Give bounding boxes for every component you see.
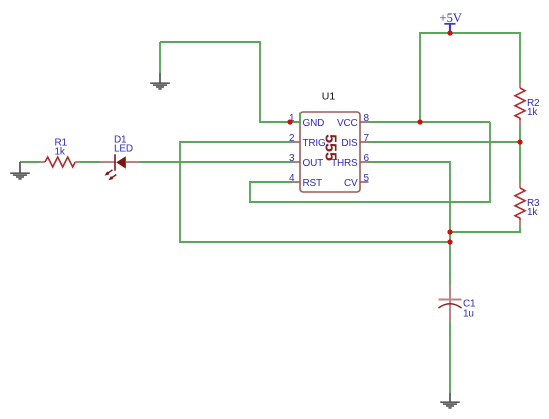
junction node DIS / R2-R3 xyxy=(517,139,522,144)
svg-text:U1: U1 xyxy=(322,91,336,103)
pin number 5 xyxy=(364,173,370,184)
pin label GND xyxy=(303,118,325,129)
pin label DIS xyxy=(341,138,358,149)
svg-text:1k: 1k xyxy=(527,107,538,118)
wire: LED to OUT pin 3 xyxy=(139,161,293,163)
pin stub 8 VCC xyxy=(360,121,369,123)
svg-text:1k: 1k xyxy=(55,147,66,158)
wire: RST loop pin4 to VCC rail xyxy=(250,122,490,202)
ground (bottom) xyxy=(440,393,460,408)
pin label CV xyxy=(344,178,358,189)
svg-text:1u: 1u xyxy=(463,309,474,320)
pin number 2 xyxy=(289,133,295,144)
wire: R2 bottom to DIS node xyxy=(519,125,521,142)
pin stub 5 CV xyxy=(360,181,369,183)
pin stub 4 RST xyxy=(293,181,301,183)
wire: DIS pin7 to R2/R3 node xyxy=(369,141,521,143)
junction node at GND pin 1 xyxy=(287,119,292,124)
label 555 xyxy=(322,134,339,161)
pin number 8 xyxy=(364,113,370,124)
wire: R1 to LED xyxy=(80,161,100,163)
capacitor C1 xyxy=(439,285,462,322)
wire: top-left ground rail to GND pin1 xyxy=(160,42,300,122)
wire: DIS node to R3 top xyxy=(519,142,521,183)
svg-text:VCC: VCC xyxy=(337,118,358,129)
wire: R3 bottom to THRS node xyxy=(450,225,520,232)
ground (left) xyxy=(10,162,30,179)
wire: VCC pin8 rail xyxy=(369,121,491,123)
label R3 1k xyxy=(527,198,540,218)
resistor R3 xyxy=(515,183,525,225)
pin number 7 xyxy=(364,133,370,144)
resistor R2 xyxy=(515,83,525,125)
pin number 6 xyxy=(364,153,370,164)
junction node +5V stub / top rail xyxy=(447,30,452,35)
svg-text:GND: GND xyxy=(303,118,325,129)
pin stub 3 OUT xyxy=(293,161,301,163)
label D1 LED xyxy=(114,135,133,155)
label R1 1k xyxy=(55,138,68,158)
svg-text:1k: 1k xyxy=(527,207,538,218)
power +5V xyxy=(440,11,462,33)
pin stub 1 GND xyxy=(293,121,301,123)
pin label RST xyxy=(303,178,322,189)
pin stub 2 TRIG xyxy=(293,141,301,143)
wire: drop from rail to ground symbol xyxy=(159,42,161,73)
junction node TRIG / THRS-C1 xyxy=(447,239,452,244)
svg-text:DIS: DIS xyxy=(341,138,358,149)
wire: TRIG loop pin2 to bottom node xyxy=(180,142,450,242)
junction node +5V drop / VCC rail xyxy=(417,119,422,124)
label U1 xyxy=(322,91,336,103)
svg-text:+5V: +5V xyxy=(440,11,462,25)
svg-text:THRS: THRS xyxy=(331,158,358,169)
pin label VCC xyxy=(337,118,358,129)
pin number 3 xyxy=(289,153,295,164)
pin number 1 xyxy=(289,113,295,124)
wire: +5V top rail xyxy=(420,33,520,122)
svg-text:LED: LED xyxy=(114,144,133,155)
svg-text:CV: CV xyxy=(344,178,358,189)
wire: THRS pin6 down to C1 xyxy=(369,162,451,285)
op-amp/timer IC U1 (555) body xyxy=(300,112,360,192)
pin stub 6 THRS xyxy=(360,161,369,163)
svg-text:RST: RST xyxy=(303,178,322,189)
svg-text:TRIG: TRIG xyxy=(303,138,327,149)
pin label THRS xyxy=(331,158,358,169)
pin stub 7 DIS xyxy=(360,141,369,143)
ground (top-left) xyxy=(150,73,170,89)
pin number 4 xyxy=(289,173,295,184)
svg-text:5: 5 xyxy=(364,173,370,184)
junction node R3 / THRS-C1 xyxy=(447,229,452,234)
wire: left ground to R1 xyxy=(20,161,40,163)
pin label OUT xyxy=(303,158,324,169)
pin label TRIG xyxy=(303,138,327,149)
wire: C1 to bottom ground xyxy=(449,322,451,393)
LED D1 xyxy=(100,154,139,182)
label C1 1u xyxy=(463,299,476,320)
label R2 1k xyxy=(527,98,540,118)
svg-text:OUT: OUT xyxy=(303,158,324,169)
resistor R1 xyxy=(40,157,80,167)
